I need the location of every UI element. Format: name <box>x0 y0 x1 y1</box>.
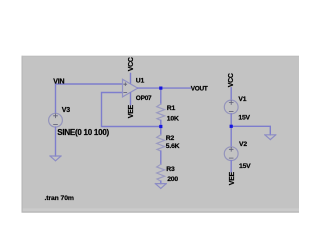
svg-text:15V: 15V <box>238 115 250 122</box>
svg-text:5.6K: 5.6K <box>166 143 180 150</box>
junction R1/R2 <box>159 125 162 128</box>
wire V2 to VEE <box>230 161 232 172</box>
wire feedback (R1/R2 tap to inverting input) <box>102 93 161 127</box>
resistor R2 <box>157 135 165 151</box>
wire VEE pin (op-amp bottom) <box>130 93 132 105</box>
svg-text:VOUT: VOUT <box>191 86 208 93</box>
ground (below R3) <box>155 184 166 189</box>
svg-text:VCC: VCC <box>128 57 135 71</box>
wire V1 to junction <box>230 114 232 126</box>
svg-text:VEE: VEE <box>229 171 236 185</box>
wire R1 to R2 <box>160 127 162 135</box>
wire junction to V2 <box>230 126 232 147</box>
svg-text:V3: V3 <box>62 107 70 114</box>
resistor R1 <box>157 104 165 120</box>
wire V3 to ground <box>55 127 57 156</box>
wire output to R1 <box>160 88 162 104</box>
voltage source V3 <box>49 113 63 127</box>
node VIN wire (top horizontal) <box>56 83 123 85</box>
resistor R3 <box>157 164 165 181</box>
svg-text:VCC: VCC <box>228 73 235 87</box>
wire junction to right ground <box>231 126 270 135</box>
op-amp - input mark <box>124 91 127 93</box>
wire op-amp output to VOUT <box>138 87 191 89</box>
svg-text:R2: R2 <box>166 135 175 142</box>
junction V1/V2/gnd <box>230 125 233 128</box>
svg-text:OP07: OP07 <box>136 95 152 102</box>
svg-text:15V: 15V <box>239 163 251 170</box>
junction output node <box>159 87 162 90</box>
voltage source V2 <box>224 147 238 161</box>
voltage source V1 <box>224 100 238 114</box>
svg-text:V2: V2 <box>239 141 247 148</box>
wire VCC pin (op-amp top) <box>130 73 132 83</box>
svg-text:V1: V1 <box>238 96 246 103</box>
svg-text:VEE: VEE <box>128 104 135 118</box>
svg-text:U1: U1 <box>136 78 145 85</box>
wire VCC to V1 <box>230 88 232 100</box>
svg-text:R3: R3 <box>166 166 175 173</box>
wire VIN vertical to V3 <box>55 84 57 113</box>
svg-text:200: 200 <box>167 176 178 183</box>
svg-text:10K: 10K <box>167 115 179 122</box>
svg-text:R1: R1 <box>167 105 176 112</box>
svg-text:VIN: VIN <box>53 78 64 85</box>
svg-text:.tran 70m: .tran 70m <box>45 195 74 202</box>
ground (right rail) <box>265 135 276 140</box>
ground (below V3) <box>50 156 61 161</box>
op-amp + input mark <box>124 83 127 86</box>
op-amp U1 <box>123 79 138 97</box>
svg-text:SINE(0 10 100): SINE(0 10 100) <box>57 128 109 137</box>
